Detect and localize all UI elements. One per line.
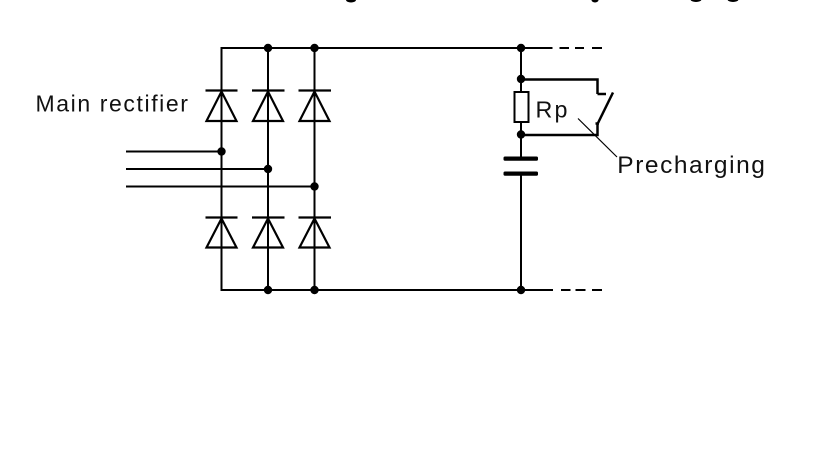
svg-text:Main rectifier: Main rectifier: [36, 90, 190, 116]
svg-text:Precharging: Precharging: [617, 152, 766, 179]
svg-text:Rp: Rp: [536, 97, 570, 123]
